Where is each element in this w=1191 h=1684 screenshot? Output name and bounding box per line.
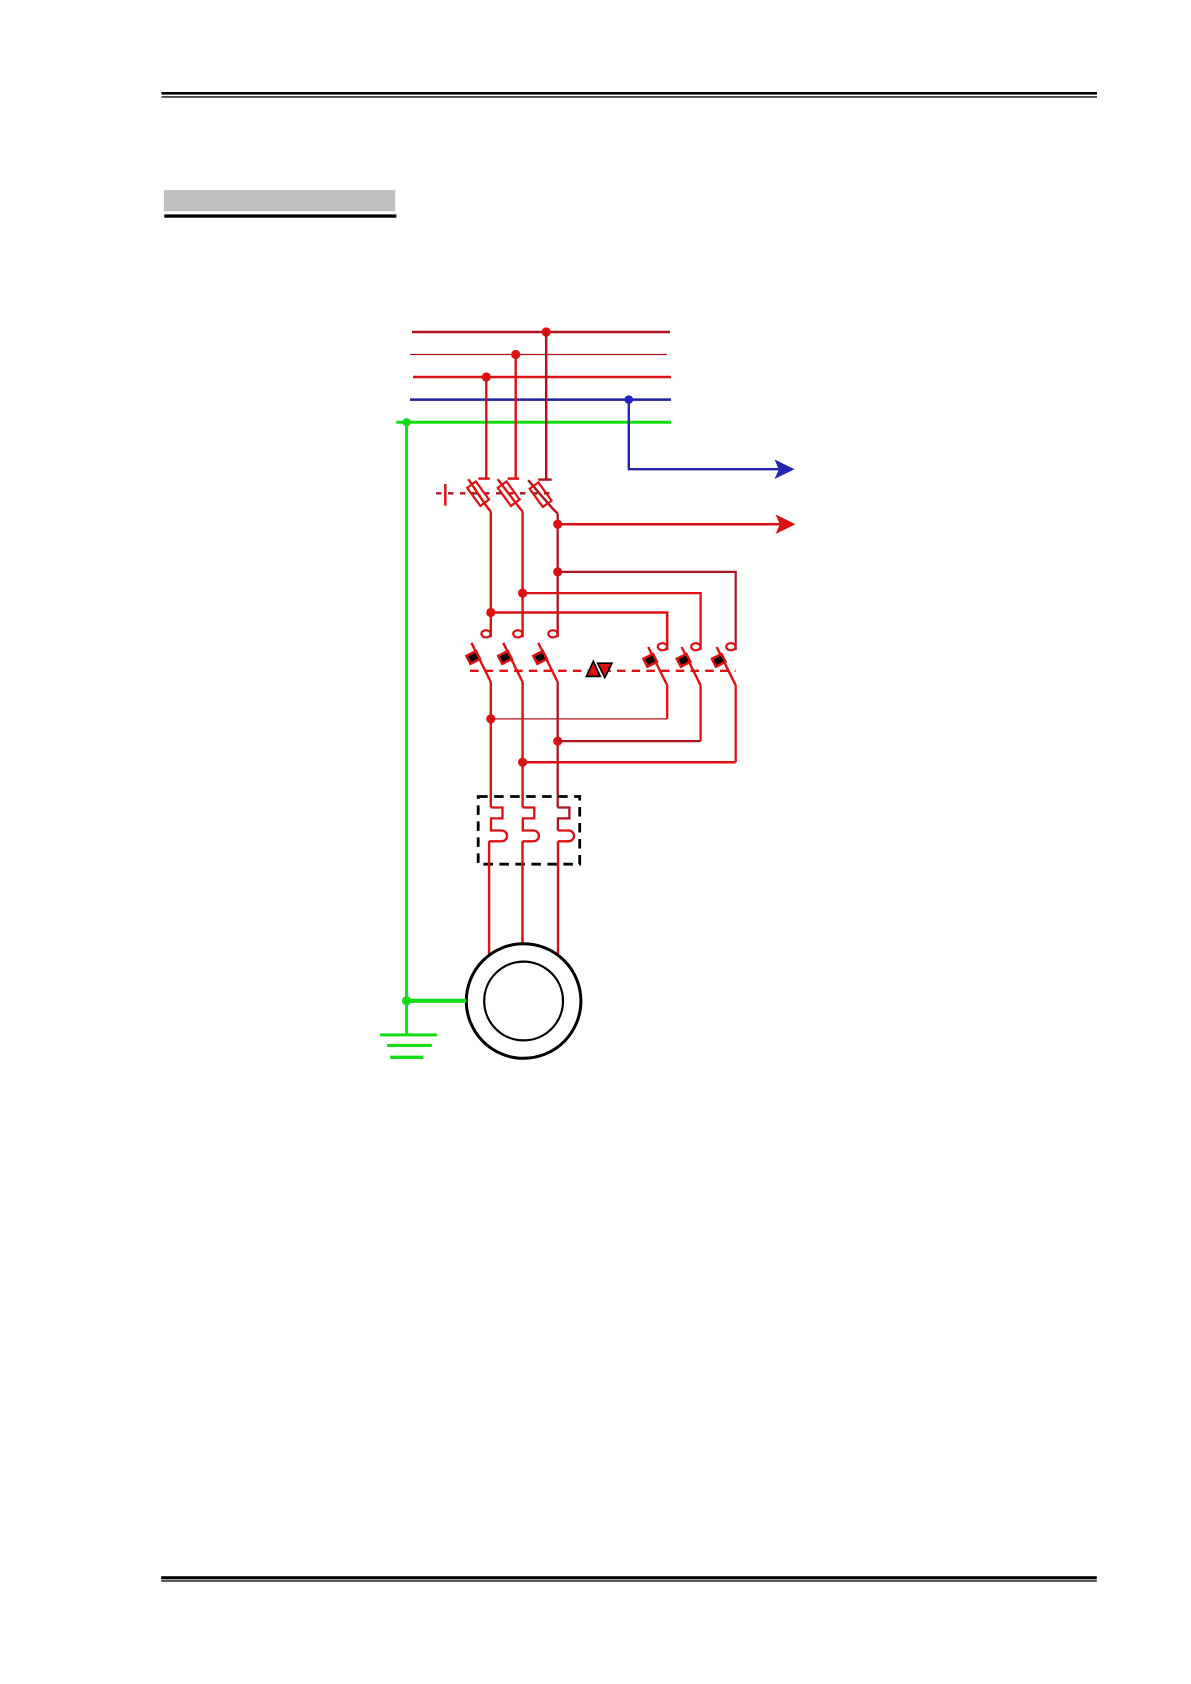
heater element 3 upper: [558, 808, 570, 831]
wire KM2 pole1 lower: [666, 685, 668, 719]
wire lower link 2: [558, 740, 701, 742]
wire cross link c to KM2 pole3: [558, 572, 736, 650]
node control takeoff: [553, 520, 562, 529]
fuse F1 (pole 1): [467, 479, 491, 512]
contactor KM2 pole 2: [677, 643, 701, 685]
fuse F2 (pole 2): [498, 479, 523, 512]
heater element 1: [489, 808, 507, 842]
wire KM2 pole2 lower: [699, 685, 701, 741]
node lower link 2: [553, 737, 562, 746]
wire fuse3 out: [557, 514, 559, 638]
fuse switch QS handle bar: [444, 484, 447, 506]
wire L1 drop to fuse pole 3: [545, 332, 548, 479]
heater element 3 lower: [558, 831, 574, 842]
wire PE rail: [396, 421, 671, 424]
fuse F3 (pole 3): [528, 480, 558, 514]
wire N drop and run to arrow: [629, 400, 789, 470]
interlock triangle up: [586, 661, 600, 676]
node lower link 3: [518, 758, 527, 767]
node L2 junction: [511, 350, 520, 359]
wire L3 drop to fuse pole 1: [485, 377, 487, 479]
wire PE drop: [405, 422, 408, 1035]
arrow control outgoing: [776, 514, 796, 534]
contactor KM2 pole 1: [643, 643, 667, 685]
fuse switch QS linkage dashed: [436, 492, 552, 494]
wire L2 rail: [410, 354, 667, 356]
contactor KM2 pole 3: [712, 643, 736, 685]
node cross link c: [553, 567, 562, 576]
arrow N outgoing: [775, 459, 795, 479]
node N junction: [625, 395, 634, 404]
contactor KM1 pole 1: [466, 630, 490, 681]
wire L3 rail: [413, 376, 671, 379]
wire control feed to arrow: [558, 523, 790, 526]
wire KM1 pole1 lower: [490, 682, 492, 808]
wire PE to motor frame: [407, 999, 467, 1003]
wire KM1 pole2 lower: [521, 682, 523, 808]
wire N rail: [410, 398, 671, 401]
motor M inner circle: [484, 962, 563, 1041]
wire KM2 pole3 lower: [735, 685, 737, 762]
wire lower link 3: [523, 761, 736, 764]
wire motor lead U: [488, 841, 490, 955]
wire cross link b to KM2 pole2: [523, 593, 701, 650]
contactor KM1 pole 3: [533, 630, 557, 681]
heater element 2: [523, 808, 539, 842]
motor M outer circle: [466, 944, 581, 1059]
node PE junction: [402, 418, 410, 426]
wire motor lead V: [521, 841, 523, 944]
interlock triangle down: [598, 663, 612, 677]
ground: [380, 1035, 437, 1057]
wire cross link a to KM2 pole1: [491, 613, 667, 651]
wire fuse1 out: [490, 512, 492, 638]
wire motor lead W: [557, 841, 559, 955]
contactor KM1 pole 2: [498, 630, 522, 681]
thermal overload FR box dashed: [478, 797, 580, 865]
mechanical linkage dashed: [470, 670, 736, 672]
node cross link b: [518, 589, 527, 598]
wire lower link 1: [491, 718, 667, 720]
node L3 junction: [482, 372, 491, 381]
wire L2 drop to fuse pole 2: [515, 355, 517, 479]
wire KM1 pole3 lower: [557, 682, 559, 808]
wire L1 rail: [412, 331, 670, 334]
node lower link 1: [486, 714, 495, 723]
node cross link a: [486, 608, 495, 617]
node L1 junction: [542, 327, 551, 336]
node PE motor junction: [402, 996, 411, 1005]
wire fuse2 out: [521, 512, 523, 638]
